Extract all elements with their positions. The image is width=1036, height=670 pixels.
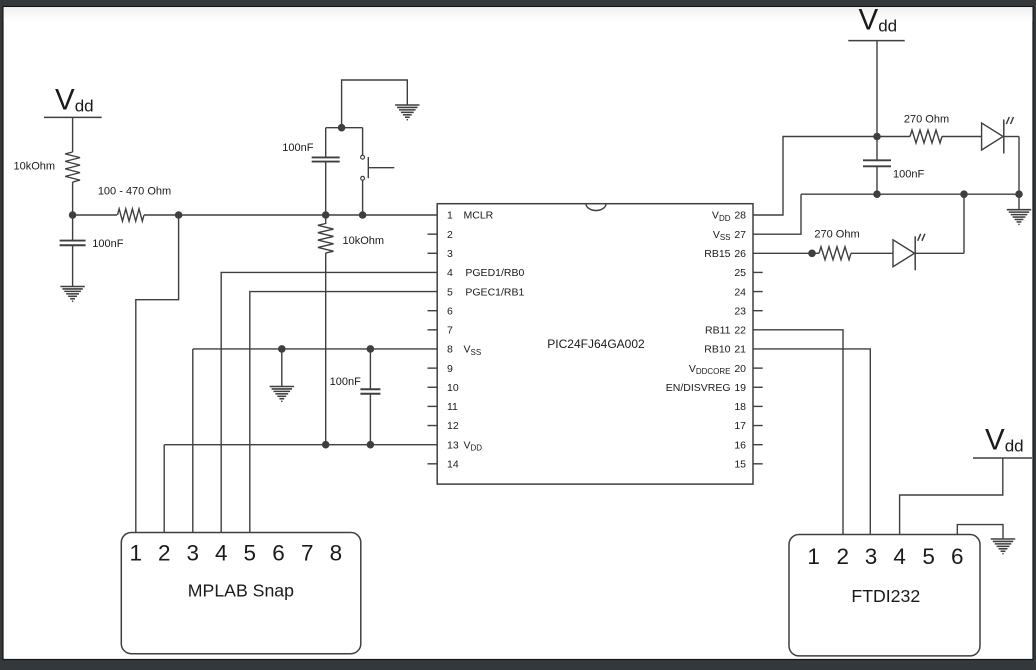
svg-text:21: 21 <box>734 344 746 356</box>
wire (MCLR to MPLAB pin 1) <box>136 215 179 542</box>
svg-text:270 Ohm: 270 Ohm <box>814 229 859 241</box>
wire <box>876 166 878 194</box>
wire <box>369 394 371 445</box>
wire (Vss rail to MPLAB pin 3) <box>192 349 194 542</box>
pin stub 20 <box>753 367 763 369</box>
wire <box>325 253 327 445</box>
pin stub 9 <box>428 367 438 369</box>
svg-text:16: 16 <box>734 439 746 451</box>
svg-text:100nF: 100nF <box>330 376 361 388</box>
capacitor 100nF (Vdd decoupling right) <box>863 160 891 166</box>
pin stub 3 <box>428 252 438 254</box>
wire (IC pin 21 RB10 to FTDI pin 3) <box>753 349 870 543</box>
pin stub 6 <box>428 310 438 312</box>
svg-text:2: 2 <box>447 229 453 241</box>
svg-text:6: 6 <box>447 305 453 317</box>
svg-text:RB11: RB11 <box>705 325 731 337</box>
svg-text:7: 7 <box>447 325 453 337</box>
wire <box>1018 194 1020 209</box>
wire (IC pin 5 PGEC1 to MPLAB pin 5) <box>250 292 437 542</box>
pin stub 24 <box>753 291 763 293</box>
wire <box>342 80 408 128</box>
pin stub 23 <box>753 310 763 312</box>
svg-text:10: 10 <box>447 382 459 394</box>
wire <box>325 128 327 158</box>
wire <box>325 215 327 224</box>
power symbol Vdd (bottom right) <box>973 424 1032 459</box>
svg-text:PGEC1/RB1: PGEC1/RB1 <box>465 286 524 298</box>
capacitor 100nF (decoupling Vss-Vdd) <box>360 389 380 394</box>
wire (Vdd rail to MPLAB pin 2) <box>163 445 165 542</box>
pin stub 16 <box>753 444 763 446</box>
wire <box>877 136 910 138</box>
node junction <box>322 441 330 449</box>
ground (reset button) <box>395 105 419 120</box>
svg-text:20: 20 <box>734 363 746 375</box>
svg-text:270 Ohm: 270 Ohm <box>904 114 949 126</box>
svg-text:13: 13 <box>447 439 459 451</box>
capacitor 100nF (reset debounce) <box>312 157 340 161</box>
wire <box>72 215 74 241</box>
wire <box>72 117 74 152</box>
svg-text:4: 4 <box>447 267 453 279</box>
node junction <box>960 190 968 198</box>
node junction <box>322 211 330 219</box>
wire <box>72 182 74 215</box>
ground (FTDI) <box>991 539 1015 555</box>
svg-text:27: 27 <box>734 229 746 241</box>
svg-text:22: 22 <box>734 325 746 337</box>
svg-text:10kOhm: 10kOhm <box>343 235 385 247</box>
wire (IC pin 26 RB15) <box>753 252 819 254</box>
svg-text:19: 19 <box>734 382 746 394</box>
pin stub 2 <box>428 233 438 235</box>
node junction <box>338 124 346 132</box>
svg-text:100nF: 100nF <box>92 238 123 250</box>
ground (top right rail) <box>1007 210 1031 226</box>
svg-text:17: 17 <box>734 420 746 432</box>
svg-text:5: 5 <box>922 544 935 569</box>
svg-text:3: 3 <box>187 541 200 566</box>
svg-text:8: 8 <box>447 344 453 356</box>
wire <box>876 41 878 137</box>
svg-text:3: 3 <box>865 544 878 569</box>
svg-text:23: 23 <box>734 305 746 317</box>
svg-text:100nF: 100nF <box>893 169 924 181</box>
svg-text:100 - 470 Ohm: 100 - 470 Ohm <box>98 186 171 198</box>
svg-text:7: 7 <box>301 541 314 566</box>
svg-text:EN/DISVREG: EN/DISVREG <box>666 382 731 394</box>
ground (Vss rail) <box>270 387 294 403</box>
node junction <box>359 211 367 219</box>
svg-text:18: 18 <box>734 401 746 413</box>
node junction <box>367 441 375 449</box>
svg-text:12: 12 <box>447 420 459 432</box>
wire <box>876 137 878 161</box>
wire (IC pin 4 PGED1 to MPLAB pin 4) <box>221 272 437 542</box>
pin stub 14 <box>428 463 438 465</box>
power symbol Vdd (top left) <box>44 84 102 118</box>
wire <box>144 214 179 216</box>
wire <box>362 128 364 156</box>
pin stub 10 <box>428 386 438 388</box>
pin stub 18 <box>753 405 763 407</box>
svg-text:2: 2 <box>158 541 171 566</box>
svg-text:1: 1 <box>807 544 820 569</box>
pin stub 19 <box>753 386 763 388</box>
wire <box>369 349 371 389</box>
svg-text:6: 6 <box>272 541 285 566</box>
resistor 270 Ohm (LED1) <box>910 130 942 143</box>
node junction <box>873 133 881 141</box>
pin stub 15 <box>753 463 763 465</box>
svg-text:1: 1 <box>130 541 143 566</box>
svg-text:MCLR: MCLR <box>464 210 494 222</box>
svg-text:MPLAB Snap: MPLAB Snap <box>188 581 294 601</box>
svg-text:25: 25 <box>734 267 746 279</box>
wire <box>851 252 893 254</box>
pin stub 7 <box>428 329 438 331</box>
wire <box>326 127 363 129</box>
connector FTDI232 body <box>789 535 980 656</box>
wire <box>1018 137 1020 195</box>
svg-text:4: 4 <box>215 541 228 566</box>
svg-text:FTDI232: FTDI232 <box>851 586 920 606</box>
resistor 270 Ohm (LED2) <box>819 247 851 260</box>
wire <box>73 214 117 216</box>
wire (FTDI pin 6 to ground) <box>957 525 1003 543</box>
resistor 10kOhm (MCLR pull-up to Vdd) <box>318 224 334 254</box>
resistor 10kOhm (MCLR pull-up top-left) <box>65 152 80 182</box>
svg-text:100nF: 100nF <box>282 142 313 154</box>
svg-text:PIC24FJ64GA002: PIC24FJ64GA002 <box>547 337 645 351</box>
svg-text:PGED1/RB0: PGED1/RB0 <box>465 267 524 279</box>
power symbol Vdd (top right) <box>848 4 904 41</box>
svg-text:11: 11 <box>447 401 458 413</box>
wire <box>915 252 964 254</box>
node junction <box>873 190 881 198</box>
svg-text:15: 15 <box>734 459 746 471</box>
pin stub 17 <box>753 425 763 427</box>
node junction <box>278 345 286 353</box>
svg-text:10kOhm: 10kOhm <box>14 161 56 173</box>
wire MCLR net to IC pin 1 <box>179 214 438 216</box>
wire <box>325 161 327 215</box>
capacitor 100nF (left RC) <box>60 241 86 246</box>
svg-text:3: 3 <box>447 248 453 260</box>
ground (below left capacitor) <box>60 287 84 303</box>
svg-text:5: 5 <box>447 286 453 298</box>
LED D1 <box>982 117 1014 154</box>
svg-text:14: 14 <box>447 459 459 471</box>
pin stub 11 <box>428 405 438 407</box>
svg-text:4: 4 <box>893 544 906 569</box>
svg-text:6: 6 <box>951 544 964 569</box>
resistor 100 - 470 Ohm (series MCLR) <box>118 209 144 221</box>
wire Vss rail (pin 8) <box>193 348 437 350</box>
svg-text:26: 26 <box>734 248 746 260</box>
wire (IC pin 22 RB11 to FTDI pin 2) <box>753 330 843 543</box>
wire <box>942 136 982 138</box>
svg-text:9: 9 <box>447 363 453 375</box>
LED D2 <box>893 234 925 271</box>
svg-text:8: 8 <box>330 541 343 566</box>
svg-text:28: 28 <box>734 210 746 222</box>
wire <box>72 245 74 286</box>
wire <box>1004 136 1019 138</box>
pin stub 25 <box>753 271 763 273</box>
wire <box>362 180 364 215</box>
svg-text:5: 5 <box>244 541 257 566</box>
connector MPLAB Snap body <box>121 533 360 654</box>
svg-text:RB15: RB15 <box>704 248 730 260</box>
node junction <box>367 345 375 353</box>
svg-text:2: 2 <box>837 544 850 569</box>
push-button switch (reset) <box>361 155 395 180</box>
node junction <box>1015 190 1023 198</box>
wire Vdd rail (pin 13) <box>164 444 437 446</box>
node junction <box>175 211 183 219</box>
wire ground rail <box>801 193 1019 195</box>
IC U1 PIC24FJ64GA002 body <box>437 204 753 484</box>
wire <box>963 194 965 253</box>
wire <box>281 349 283 386</box>
wire (FTDI pin 4 to Vdd) <box>900 458 1003 543</box>
wire (ground rail to IC pin 27) <box>753 194 801 234</box>
node junction <box>69 211 77 219</box>
svg-text:24: 24 <box>734 286 746 298</box>
pin stub 12 <box>428 425 438 427</box>
svg-text:RB10: RB10 <box>704 344 730 356</box>
wire (Vdd to IC pin 28) <box>753 137 877 216</box>
svg-text:1: 1 <box>447 210 453 222</box>
node junction <box>808 249 816 257</box>
